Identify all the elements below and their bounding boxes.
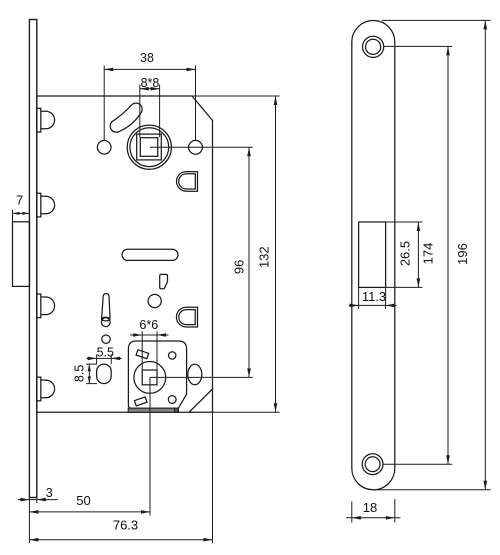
spindle hub inner circle: [130, 128, 169, 167]
dim 18 extension lines: [351, 502, 353, 523]
dim 26.5 line: [417, 222, 419, 287]
flag shaped hole: [160, 274, 168, 288]
spindle square inner 8x8: [140, 138, 157, 157]
svg-text:6*6: 6*6: [139, 318, 158, 332]
arrows dim 26.5: [417, 222, 421, 231]
arrows dim 174: [446, 46, 450, 55]
right screw hole: [189, 140, 203, 154]
svg-text:174: 174: [420, 243, 435, 265]
dim 18 line: [346, 517, 401, 519]
teardrop lever: [103, 294, 109, 297]
case right edge extension down: [212, 412, 214, 543]
tilted rect lower: [134, 397, 147, 406]
dim 6*6 extension lines: [141, 331, 143, 370]
fixing tab bump 2: [37, 193, 55, 217]
arrows dim 18: [352, 516, 361, 520]
strike box 7mm deep: [13, 222, 30, 287]
dim 50 line: [29, 511, 150, 513]
dim 196 line: [484, 20, 486, 489]
arrows dim 196: [484, 20, 488, 29]
dim 11.3 extension lines: [358, 287, 360, 308]
dim 26.5 extension lines: [386, 221, 423, 223]
gray strike bar: [128, 408, 178, 412]
dim 174 line: [447, 46, 449, 464]
keyhole circle: [148, 294, 161, 307]
arrows dim 96: [247, 147, 251, 156]
fixing tab bump 3: [37, 294, 55, 318]
svg-text:3: 3: [46, 486, 53, 500]
cylinder centre extension down: [149, 377, 151, 515]
dim 7 line: [13, 212, 30, 214]
horizontal stadium slot: [122, 249, 178, 260]
faceplate strip (front view): [29, 20, 36, 498]
small circle below teardrop: [102, 335, 110, 343]
side view latch box: [359, 222, 386, 287]
arrows dim 8*8: [140, 87, 149, 91]
svg-text:50: 50: [76, 493, 90, 508]
dim 6*6 line: [130, 334, 169, 336]
cylinder circle: [134, 362, 166, 394]
dim 8.5 extension lines: [86, 363, 97, 365]
plate screw lower: [168, 396, 176, 404]
arrows dim 38: [104, 68, 113, 72]
dim 5.5 extension lines: [96, 355, 98, 365]
svg-text:8*8: 8*8: [141, 76, 160, 90]
svg-text:7: 7: [16, 193, 23, 208]
dim 8*8 extension lines: [139, 85, 141, 138]
tilted rect upper: [136, 350, 149, 359]
arrows dim 5.5 (outside): [88, 357, 97, 361]
arrows dim 50: [29, 510, 38, 514]
side view faceplate outline: [352, 21, 395, 490]
strip edge extensions bottom: [28, 498, 30, 544]
svg-text:38: 38: [140, 51, 154, 65]
dim 7 extension: [12, 210, 14, 222]
side view bottom screw: [362, 454, 383, 475]
lock case outline: [37, 96, 213, 412]
dim 38 line: [104, 68, 195, 70]
left screw hole: [97, 141, 111, 155]
svg-text:96: 96: [231, 260, 246, 274]
spindle hub outer circle: [127, 125, 171, 169]
svg-text:18: 18: [363, 500, 377, 515]
svg-text:8.5: 8.5: [72, 365, 86, 382]
spindle square outer: [137, 134, 162, 160]
case bottom extension: [213, 411, 280, 413]
arrows dim 76.3: [29, 538, 38, 542]
corner gusset diagonal: [189, 389, 213, 412]
plate screw upper: [169, 352, 176, 359]
arrows dim 132: [274, 96, 278, 105]
dim 3 line: [18, 499, 58, 501]
cylinder square 6x6: [142, 370, 157, 385]
dim 96 line: [248, 147, 250, 377]
arrows dim 11.3 (outside): [350, 304, 359, 308]
spindle centre line extension: [150, 146, 253, 148]
fixing tab bump 4: [37, 377, 55, 401]
oval latch on plate edge: [188, 364, 202, 384]
fixing tab bump 1: [37, 108, 55, 132]
dim 174 extension lines: [384, 45, 453, 47]
dim 5.5 line: [87, 357, 122, 359]
case top extension: [192, 95, 280, 97]
dim 132 line: [275, 96, 277, 412]
cylinder centre line extension: [150, 376, 253, 378]
arrows dim 6*6 (outside): [133, 333, 142, 337]
dim 76.3 line: [29, 539, 212, 541]
curved handle slot: [110, 103, 142, 132]
side view top screw: [363, 36, 384, 57]
dim 196 extension lines: [382, 19, 491, 21]
dim 11.3 line: [349, 304, 397, 306]
dim 38 extension lines: [103, 66, 105, 141]
arrows dim 7: [13, 212, 20, 215]
dim 8.5 line: [88, 364, 90, 384]
arrows dim 3 (outside): [20, 498, 29, 502]
svg-text:196: 196: [455, 243, 470, 265]
svg-text:5.5: 5.5: [97, 346, 114, 360]
svg-text:132: 132: [257, 246, 272, 268]
D-hole upper right: [177, 172, 198, 192]
cylinder mounting plate: [128, 341, 186, 408]
D-hole lower right: [176, 307, 197, 327]
arrows dim 8.5: [88, 364, 91, 371]
vertical oval hole 5.5x8.5: [97, 364, 112, 384]
svg-text:76.3: 76.3: [113, 518, 138, 533]
svg-text:26.5: 26.5: [398, 241, 413, 266]
dim 8*8 line: [140, 88, 160, 90]
svg-text:11.3: 11.3: [362, 289, 386, 304]
